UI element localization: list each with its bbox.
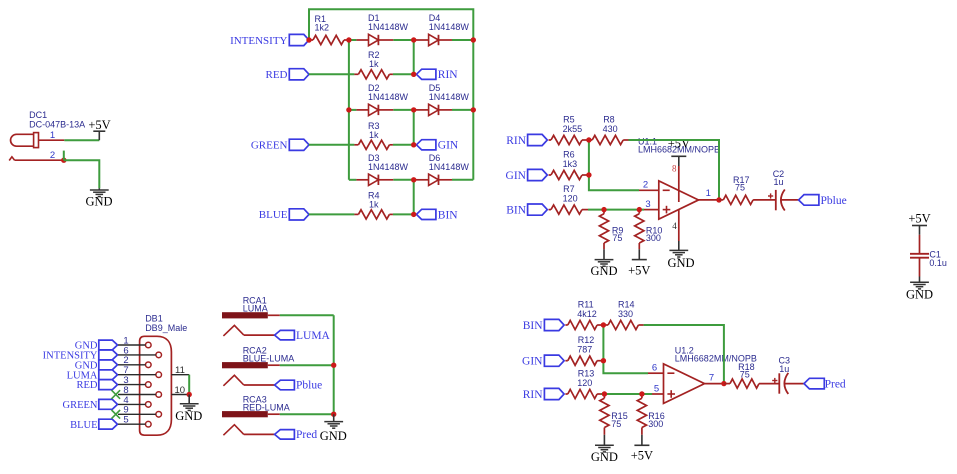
- op-amp U1.1 labels: [638, 137, 720, 155]
- wire summing column to pin2: [589, 140, 639, 190]
- port Pred: [275, 429, 318, 441]
- svg-text:2: 2: [50, 150, 55, 161]
- op-amp U1.2 labels: [675, 346, 757, 364]
- svg-text:120: 120: [577, 378, 592, 388]
- svg-text:1k2: 1k2: [315, 22, 330, 32]
- port BLUE: [259, 209, 309, 221]
- port GREEN (DB9 pin 4): [63, 399, 118, 411]
- DB1 pin 2 lead: [118, 355, 146, 366]
- wire RCA shield bus: [333, 315, 335, 414]
- svg-text:RED: RED: [266, 69, 288, 81]
- svg-text:2k55: 2k55: [563, 124, 583, 134]
- svg-text:GND: GND: [320, 429, 347, 443]
- junction dots RCA bus: [331, 363, 336, 417]
- svg-text:R11: R11: [578, 299, 594, 309]
- svg-text:11: 11: [175, 365, 185, 376]
- connector RCA1 labels: [243, 296, 268, 314]
- svg-text:10: 10: [175, 385, 186, 396]
- svg-text:1: 1: [706, 188, 711, 199]
- connector RCA3 center pin: [223, 425, 274, 436]
- no-connect X pin 9: [112, 410, 121, 419]
- wire INTENSITY top feed: [309, 9, 473, 40]
- diode D1: [356, 13, 408, 46]
- svg-text:+5V: +5V: [908, 211, 930, 225]
- DB1 pin 9 lead: [118, 405, 156, 416]
- svg-text:1k: 1k: [369, 59, 379, 69]
- port GIN: [416, 140, 459, 152]
- resistor R5: [549, 115, 589, 145]
- connector DB1 body: [140, 336, 172, 435]
- svg-text:4: 4: [672, 221, 677, 231]
- wire BLUE to BIN: [309, 213, 414, 215]
- svg-text:1N4148W: 1N4148W: [429, 22, 470, 32]
- svg-text:DC-047B-13A: DC-047B-13A: [29, 119, 85, 129]
- port INTENSITY (DB9 pin 6): [43, 350, 118, 362]
- port GND (DB9 pin 2): [75, 360, 118, 372]
- svg-text:GIN: GIN: [438, 140, 459, 152]
- svg-text:R12: R12: [578, 335, 595, 345]
- svg-text:DB1: DB1: [145, 314, 163, 324]
- svg-text:1N4148W: 1N4148W: [368, 162, 409, 172]
- connector DC1 barrel symbol: [11, 133, 39, 148]
- port Pblue (U1.1 out): [799, 195, 847, 207]
- pin 4 ground: [667, 210, 694, 271]
- resistor R1: [309, 14, 349, 45]
- junction dots U1.2: [601, 322, 727, 396]
- node DC1 pin2 junction: [61, 151, 66, 163]
- ground at C1: [906, 277, 933, 302]
- svg-text:Pblue: Pblue: [296, 380, 322, 392]
- op-amp U1.2: [664, 364, 705, 404]
- feedback wire U1.2: [644, 325, 724, 384]
- svg-text:1N4148W: 1N4148W: [429, 92, 470, 102]
- svg-text:GND: GND: [590, 264, 617, 278]
- power +5V under R16: [631, 435, 653, 463]
- svg-text:6: 6: [652, 363, 657, 374]
- svg-text:RIN: RIN: [506, 135, 527, 147]
- DB1 pin 1 lead: [118, 335, 146, 346]
- ground at RCA bus: [320, 414, 347, 443]
- svg-text:GND: GND: [667, 256, 694, 270]
- svg-text:GIN: GIN: [522, 356, 543, 368]
- svg-text:1k3: 1k3: [563, 159, 578, 169]
- capacitor C1: [910, 235, 947, 277]
- wire left bus: [348, 40, 350, 180]
- DB1 pin 5 lead: [118, 415, 146, 426]
- svg-text:R14: R14: [618, 299, 635, 309]
- wire RIN row to pin5: [601, 393, 652, 395]
- RCA1 shield lead: [268, 314, 280, 316]
- pin 6 lead: [648, 363, 664, 374]
- svg-text:1k: 1k: [369, 130, 379, 140]
- svg-text:300: 300: [646, 233, 661, 243]
- svg-text:Pred: Pred: [825, 379, 846, 391]
- port LUMA (DB9 pin 7): [67, 370, 118, 382]
- svg-text:GND: GND: [906, 287, 933, 301]
- svg-text:BIN: BIN: [506, 204, 527, 216]
- svg-text:RIN: RIN: [438, 69, 459, 81]
- wire diode row: [349, 109, 473, 111]
- diode D3: [356, 153, 408, 186]
- resistor R9: [599, 210, 623, 250]
- resistor R16: [637, 394, 664, 435]
- ground under R9: [590, 249, 617, 278]
- svg-text:300: 300: [648, 419, 663, 429]
- wire RED to RIN: [309, 73, 414, 75]
- svg-text:BIN: BIN: [523, 320, 544, 332]
- port GREEN: [251, 139, 309, 151]
- wire RCA2 shield to bus: [280, 364, 334, 366]
- svg-text:+5V: +5V: [88, 118, 110, 132]
- svg-text:0.1u: 0.1u: [929, 258, 947, 268]
- DB1 pin holes: [146, 342, 162, 427]
- svg-text:1N4148W: 1N4148W: [429, 162, 470, 172]
- svg-text:RED: RED: [77, 380, 98, 391]
- RCA2 shield lead: [268, 364, 280, 366]
- svg-text:5: 5: [654, 383, 659, 394]
- port RIN (U1.1): [506, 134, 547, 146]
- svg-text:1k: 1k: [369, 200, 379, 210]
- DB1 pin 8 lead: [118, 385, 156, 396]
- junction dots U1.1: [586, 137, 722, 212]
- svg-text:5: 5: [123, 415, 128, 426]
- wire GREEN to GIN: [309, 144, 414, 146]
- resistor R3: [354, 121, 393, 149]
- svg-text:GREEN: GREEN: [251, 140, 288, 152]
- connector DC1 pin 2 chevron: [9, 157, 14, 161]
- wire diode row: [349, 39, 473, 41]
- svg-text:GIN: GIN: [506, 170, 527, 182]
- svg-text:1u: 1u: [774, 177, 784, 187]
- connector RCA3 shield bar: [222, 411, 268, 417]
- svg-text:BLUE: BLUE: [70, 420, 97, 431]
- svg-text:DB9_Male: DB9_Male: [145, 323, 187, 333]
- svg-text:2: 2: [643, 180, 648, 191]
- resistor R18: [724, 362, 779, 388]
- resistor R8: [589, 115, 629, 145]
- svg-text:430: 430: [603, 124, 618, 134]
- pin 2 lead: [639, 180, 659, 191]
- wire mid column to GIN: [413, 110, 415, 145]
- pin 3 lead: [644, 199, 659, 210]
- DB1 pin 7 lead: [118, 365, 156, 376]
- svg-text:330: 330: [618, 309, 633, 319]
- resistor R11: [565, 299, 603, 329]
- port BLUE (DB9 pin 5): [70, 419, 117, 431]
- power +5V at DC1: [88, 118, 110, 140]
- feedback wire U1.1: [629, 140, 720, 200]
- wire pin2 to GND: [64, 160, 100, 188]
- resistor R7: [549, 184, 588, 214]
- junction dots diode matrix: [306, 37, 476, 217]
- svg-text:BLUE: BLUE: [259, 209, 288, 221]
- resistor R14: [603, 299, 643, 329]
- port INTENSITY: [230, 34, 309, 46]
- DC1 pin 1 lead: [39, 130, 65, 141]
- capacitor C3: [772, 356, 804, 394]
- wire diode row: [349, 179, 473, 181]
- DB1 pin 10 lead: [171, 385, 189, 396]
- DB1 pin 11 lead: [171, 365, 189, 376]
- no-connect X pin 8: [112, 390, 121, 399]
- svg-text:4k12: 4k12: [577, 309, 597, 319]
- capacitor C2: [768, 169, 799, 211]
- svg-text:GND: GND: [175, 409, 202, 423]
- resistor R13: [565, 368, 601, 398]
- wire RCA3 shield to bus: [280, 413, 334, 415]
- connector RCA1 center pin: [223, 325, 274, 336]
- svg-text:1N4148W: 1N4148W: [368, 92, 409, 102]
- ground at DB1: [175, 395, 202, 423]
- resistor R2: [354, 50, 393, 79]
- connector DC1 labels: [29, 110, 85, 129]
- port Pblue: [275, 380, 323, 392]
- pin 5 lead: [652, 383, 664, 394]
- ground at DC1: [85, 188, 112, 208]
- port BIN (U1.2): [523, 319, 564, 331]
- wire BIN row to pin3: [588, 209, 644, 211]
- wire mid column to RIN: [413, 40, 415, 74]
- svg-text:1: 1: [50, 130, 55, 141]
- pin 1 output lead: [699, 188, 720, 200]
- port RED: [266, 69, 310, 81]
- resistor R4: [354, 191, 393, 219]
- port RIN (U1.2): [523, 388, 564, 400]
- connector RCA2 shield bar: [222, 362, 268, 368]
- svg-text:GND: GND: [85, 195, 112, 209]
- svg-text:Pblue: Pblue: [821, 195, 847, 207]
- port GIN (U1.1): [506, 169, 548, 181]
- connector RCA2 center pin: [223, 375, 274, 386]
- connector DB1 labels: [145, 314, 187, 334]
- svg-text:+5V: +5V: [668, 137, 690, 151]
- wire pin1 to +5V: [64, 139, 99, 141]
- svg-text:120: 120: [563, 193, 578, 203]
- svg-text:75: 75: [740, 370, 750, 380]
- wire pin11 to pin10: [188, 375, 190, 395]
- svg-text:GREEN: GREEN: [63, 400, 98, 411]
- connector RCA1 shield bar: [222, 312, 268, 318]
- DC1 pin 2 lead: [15, 150, 64, 161]
- svg-text:INTENSITY: INTENSITY: [230, 35, 287, 47]
- pin 8 power: [668, 137, 690, 202]
- port BIN (U1.1): [506, 204, 547, 216]
- port RED (DB9 pin 3): [77, 380, 118, 392]
- power +5V under R10: [628, 249, 650, 277]
- RCA3 shield lead: [268, 413, 280, 415]
- resistor R15: [600, 394, 628, 435]
- svg-text:75: 75: [735, 183, 745, 193]
- pin 7 output lead: [705, 372, 724, 383]
- resistor R17: [719, 175, 776, 205]
- svg-text:R13: R13: [578, 368, 595, 378]
- svg-text:7: 7: [709, 372, 714, 383]
- resistor R6: [549, 150, 589, 180]
- svg-text:+5V: +5V: [631, 448, 653, 462]
- svg-text:+5V: +5V: [628, 264, 650, 278]
- diode D6: [414, 153, 470, 186]
- svg-text:GND: GND: [591, 450, 618, 464]
- power +5V at C1: [908, 211, 930, 234]
- port LUMA: [275, 330, 331, 342]
- diode D4: [414, 13, 470, 46]
- node pin10 junction: [187, 392, 192, 397]
- svg-text:Pred: Pred: [296, 429, 317, 441]
- port GND (DB9 pin 1): [75, 340, 118, 352]
- ground under R15: [591, 435, 618, 464]
- svg-text:1N4148W: 1N4148W: [368, 22, 409, 32]
- wire mid column to BIN: [413, 180, 415, 215]
- DB1 pin 3 lead: [118, 375, 146, 386]
- svg-text:787: 787: [577, 345, 592, 355]
- svg-text:8: 8: [672, 164, 677, 174]
- resistor R10: [635, 210, 663, 250]
- port Pred (U1.2 out): [804, 378, 846, 390]
- svg-text:RIN: RIN: [523, 389, 544, 401]
- svg-text:75: 75: [611, 419, 621, 429]
- svg-text:LUMA: LUMA: [296, 330, 331, 342]
- diode D5: [414, 83, 470, 116]
- port RIN: [416, 69, 458, 81]
- wire RCA1 shield to bus: [280, 314, 334, 316]
- port BIN: [416, 209, 458, 221]
- svg-text:BIN: BIN: [438, 209, 459, 221]
- svg-text:75: 75: [612, 233, 622, 243]
- DB1 pin 4 lead: [118, 395, 146, 406]
- wire right bus: [472, 40, 474, 180]
- connector RCA3 labels: [243, 394, 290, 412]
- resistor R12: [565, 335, 603, 365]
- connector RCA2 labels: [243, 345, 295, 363]
- port GIN (U1.2): [522, 355, 564, 367]
- svg-text:3: 3: [645, 199, 650, 210]
- DB1 pin 6 lead: [118, 345, 156, 356]
- diode D2: [356, 83, 408, 116]
- wire summing column to pin6: [603, 325, 648, 373]
- op-amp U1.1: [659, 181, 699, 219]
